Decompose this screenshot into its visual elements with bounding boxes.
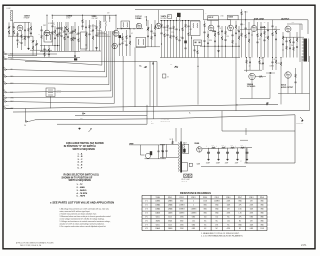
- svg-text:150: 150: [204, 217, 207, 219]
- resistor R36 string x259.5: [259, 58, 261, 61]
- resistor R20 string x197.5: [197, 46, 199, 51]
- svg-text:.01: .01: [273, 59, 275, 61]
- wire coil core a: [100, 21, 102, 29]
- svg-text:PIN 4: PIN 4: [203, 197, 207, 199]
- wire x25 vertical: [24, 109, 26, 122]
- svg-text:SWITCH SEQUENCE: SWITCH SEQUENCE: [73, 149, 96, 151]
- wire V6 top: [210, 20, 212, 25]
- capacitor C18 string x194.5: [194, 46, 196, 51]
- wire antenna bottom row: [8, 56, 80, 58]
- svg-text:0: 0: [193, 201, 194, 203]
- tube V7 detector: [228, 25, 234, 31]
- svg-text:50C5: 50C5: [244, 12, 248, 14]
- svg-text:.05: .05: [264, 22, 266, 24]
- svg-text:+: +: [235, 145, 236, 147]
- svg-text:150: 150: [192, 220, 195, 222]
- svg-text:1.2K: 1.2K: [241, 144, 244, 146]
- resistor R25 string x236: [235, 21, 237, 25]
- wire stage2 row 51.3: [40, 50, 80, 52]
- wire riser x222: [221, 111, 223, 132]
- wire x52 drop: [52, 15, 53, 16]
- capacitor CX7 string x73: [72, 26, 74, 31]
- svg-text:12BE6: 12BE6: [155, 201, 160, 203]
- capacitor CX2 string x41.5: [41, 26, 43, 30]
- capacitor C11 string x119.7: [119, 34, 121, 36]
- svg-text:47K: 47K: [30, 40, 32, 42]
- svg-text:+: +: [225, 145, 226, 147]
- svg-text:V 2: V 2: [145, 205, 148, 207]
- resistor R43 filter: [222, 147, 226, 149]
- capacitor C2 string x25: [24, 22, 26, 30]
- wire riser x150: [149, 62, 151, 107]
- svg-text:5. - TAPE: 5. - TAPE: [77, 195, 86, 198]
- resistor R42 filter: [212, 147, 216, 149]
- wire AC top: [160, 143, 178, 145]
- svg-text:TUBE: TUBE: [156, 197, 160, 199]
- capacitor C38 string x166.5: [166, 144, 168, 150]
- resistor R21 string x204.5: [204, 21, 206, 24]
- tube V1 RF amplifier: [17, 25, 23, 31]
- svg-text:2. - MAN.: 2. - MAN.: [77, 186, 86, 189]
- svg-text:1.5MEG: 1.5MEG: [179, 205, 185, 207]
- resistor R41 h: [175, 66, 178, 68]
- wire ant row y36: [8, 35, 33, 37]
- wire x236 long drop: [235, 58, 237, 111]
- capacitor C14 string x164.5: [164, 21, 166, 27]
- resistor R10 string x96.5: [96, 20, 98, 26]
- wire x246 stub: [245, 128, 247, 135]
- capacitor C8 string x78.5: [78, 26, 80, 33]
- resistor R29 string x264.5: [264, 26, 266, 31]
- pilot light lamp 2: [188, 174, 192, 178]
- vertical x270 drop: [269, 75, 271, 99]
- resistor R28 string x257.5: [257, 22, 259, 34]
- capacitor C34: [267, 102, 269, 104]
- capacitor CX3 string x44.5: [44, 45, 46, 49]
- resistor R38 string x281: [280, 58, 282, 63]
- svg-text:PIN 8: PIN 8: [249, 197, 253, 199]
- wire bus E: [57, 123, 147, 125]
- svg-text:NO.44 (2): NO.44 (2): [182, 181, 188, 183]
- svg-text:220: 220: [278, 63, 280, 65]
- svg-text:3.3MEG: 3.3MEG: [179, 209, 185, 211]
- dark resistor R6b: [74, 58, 77, 60]
- capacitor C7 string x71.5: [71, 26, 73, 32]
- capacitor C26 string x272.5: [272, 20, 274, 26]
- rectifier socket box: [183, 144, 189, 153]
- svg-text:GRN: GRN: [10, 59, 13, 61]
- electrolytic C42: [237, 148, 239, 152]
- wire row x80-101 y51: [80, 50, 101, 52]
- wire conv top: [46, 15, 48, 30]
- svg-text:470K: 470K: [221, 16, 224, 18]
- svg-text:50C5: 50C5: [156, 217, 160, 219]
- tube V4 1st IF amp: [136, 23, 142, 29]
- capacitor C6 string x64.5: [64, 26, 66, 31]
- terminal PH: [25, 121, 27, 123]
- resistor R2 string x21.5: [21, 31, 23, 35]
- svg-text:1. - A: 1. - A: [78, 152, 83, 155]
- svg-text:PHONO: PHONO: [4, 105, 9, 107]
- capacitor CX5 string x59.5: [59, 22, 61, 28]
- svg-text:.02: .02: [249, 66, 251, 68]
- wire P8 join: [8, 107, 13, 109]
- power transformer T6 core: [180, 142, 182, 173]
- wire y140 stub: [240, 139, 248, 141]
- wire segment y131: [222, 130, 295, 132]
- svg-text:150MF: 150MF: [206, 163, 210, 165]
- ground sym lower left: [79, 127, 81, 130]
- svg-text:3. - C: 3. - C: [78, 159, 83, 161]
- wire AC bottom: [160, 156, 178, 158]
- svg-text:10MEG: 10MEG: [179, 213, 185, 215]
- wire x288 drop: [287, 78, 289, 94]
- svg-text:470K OHM: 470K OHM: [254, 18, 264, 21]
- svg-text:2. 0.15 OHM MEASURED ACROSS FI: 2. 0.15 OHM MEASURED ACROSS FILAMENTS.: [201, 235, 243, 238]
- wire x110 string x109.8: [109, 15, 111, 18]
- table grid: [141, 195, 143, 230]
- svg-text:PIN 7: PIN 7: [238, 197, 242, 199]
- wire y37 link: [283, 36, 304, 38]
- svg-text:1.2K: 1.2K: [231, 144, 234, 146]
- pilot lamp jewel: [189, 163, 192, 166]
- terminal GND: [82, 113, 84, 115]
- tube V3b oscillator: [112, 43, 117, 48]
- electrolytic C39: [208, 148, 210, 152]
- svg-text:4. - D: 4. - D: [78, 161, 83, 164]
- capacitor C5 string x57.5: [57, 22, 59, 28]
- svg-text:INTERLOCK: INTERLOCK: [296, 123, 303, 125]
- resistor R27 string x241.5: [241, 9, 243, 12]
- capacitor C28 string x293.5: [293, 37, 295, 42]
- wire phono bend: [140, 145, 144, 155]
- wire x300 drop: [299, 24, 301, 62]
- capacitor C30 on bus A: [266, 103, 268, 105]
- interlock plug: [300, 117, 303, 122]
- wire B plus top bus: [204, 20, 309, 34]
- electrolytic C43: [246, 148, 248, 152]
- svg-text:RECT: RECT: [183, 143, 187, 145]
- resistor R1 string x17.5: [17, 31, 19, 33]
- junction dots audio row: [246, 57, 247, 58]
- svg-text:150: 150: [291, 45, 293, 47]
- svg-text:470K: 470K: [261, 64, 264, 66]
- resistor R8 string x82.5: [82, 15, 84, 19]
- svg-text:470K: 470K: [209, 40, 212, 42]
- svg-text:RESISTANCE READINGS: RESISTANCE READINGS: [180, 191, 211, 195]
- tube V3 mixer: [113, 30, 119, 36]
- svg-text:50C5: 50C5: [156, 224, 160, 226]
- svg-text:OSC SEC: OSC SEC: [92, 18, 98, 20]
- wire x252 drop: [251, 80, 253, 99]
- resistor R33 string x290: [289, 32, 291, 40]
- wire mixer top: [115, 15, 117, 30]
- 3rd IF can box T4: [191, 21, 200, 36]
- vertical x281 drop: [280, 70, 282, 104]
- coil box shield: [81, 32, 88, 49]
- svg-text:S1 FRONT: S1 FRONT: [48, 23, 55, 25]
- svg-text:GND: GND: [80, 118, 83, 120]
- svg-text:● SEE PARTS LIST FOR VALUE AND: ● SEE PARTS LIST FOR VALUE AND APPLICATI…: [50, 200, 114, 204]
- transformer primary winding: [178, 143, 181, 172]
- resistor R9 string x89.5: [89, 20, 91, 25]
- svg-text:150: 150: [227, 220, 230, 222]
- wire phono top: [133, 144, 165, 146]
- capacitor C15 string x170.5: [170, 21, 172, 28]
- resistor R14 string x155: [154, 20, 156, 26]
- capacitor C37 string x162.4: [161, 144, 163, 150]
- wire ant row y22: [14, 21, 30, 23]
- wire P7 to switch riser: [8, 58, 113, 98]
- svg-text:100MF: 100MF: [216, 163, 220, 165]
- svg-text:6.3V: 6.3V: [197, 164, 200, 166]
- capacitor C33 h: [269, 72, 271, 74]
- wire transformer secondary out: [181, 163, 188, 172]
- coil L4b: [105, 21, 108, 27]
- wire right power drop x295: [246, 115, 295, 163]
- svg-text:1.5MEG: 1.5MEG: [214, 201, 220, 203]
- resistor R4 string x55: [54, 26, 56, 30]
- phono plug symbol: [130, 143, 133, 145]
- svg-text:OUT: OUT: [292, 22, 295, 24]
- svg-text:V 8: V 8: [145, 228, 148, 230]
- svg-text:5. - E: 5. - E: [78, 165, 83, 167]
- svg-text:PIN 2: PIN 2: [180, 197, 184, 199]
- relay box K1: [46, 88, 55, 97]
- AVC wire: [136, 46, 160, 48]
- wire y24 link: [287, 24, 302, 30]
- resistor RX4 string x49: [48, 45, 50, 49]
- wire ground bus B: [13, 111, 310, 112]
- wire x146 string x146.5: [146, 16, 148, 20]
- resistor R40 string x295.5: [295, 68, 297, 74]
- wire P6 to switch riser: [8, 58, 111, 93]
- svg-text:40MF: 40MF: [235, 163, 239, 165]
- electrolytic C40: [218, 148, 220, 152]
- svg-text:33K: 33K: [226, 36, 228, 38]
- svg-text:.01: .01: [273, 29, 275, 31]
- svg-text:PIN 5: PIN 5: [215, 197, 219, 199]
- svg-text:4. - 78 RPM: 4. - 78 RPM: [77, 192, 88, 195]
- wire x302 drop: [301, 56, 303, 94]
- wire riser x135 low: [134, 48, 136, 107]
- capacitor C27 string x286.5: [286, 37, 288, 41]
- wire ph stub: [28, 120, 35, 122]
- junction dots 2nd det row: [204, 46, 205, 47]
- capacitor C16 string x176.5: [176, 17, 178, 29]
- audio row y70: [244, 69, 262, 71]
- capacitor C13 string x151.5: [151, 24, 153, 31]
- svg-text:PIN 9: PIN 9: [260, 197, 264, 199]
- resistor RX1 string x31: [30, 22, 32, 26]
- wire audio row y98.5: [240, 98, 270, 100]
- switch riser tops: [101, 31, 103, 58]
- wire relay lead: [50, 97, 52, 109]
- capacitor C17 string x188.5: [188, 21, 190, 26]
- wire bus riser x147: [146, 105, 148, 124]
- wire bus C: [75, 115, 147, 117]
- svg-text:2ND IF: 2ND IF: [208, 17, 213, 19]
- resistor R32 string x283: [282, 32, 284, 36]
- switch S3 box: [163, 74, 166, 78]
- capacitor C35 string x158.5: [158, 145, 160, 151]
- capacitor C1A string x9: [8, 22, 10, 27]
- wire P2 to switch riser: [8, 58, 102, 66]
- svg-text:V 5: V 5: [145, 217, 148, 219]
- svg-text:12BE6: 12BE6: [66, 15, 73, 17]
- wire x245 string x245.6: [245, 11, 247, 20]
- oscillator coil L4: [99, 21, 102, 29]
- resistor R17 string x173.5: [173, 21, 175, 26]
- resistor R37 string x276: [275, 58, 277, 61]
- svg-text:V 1: V 1: [145, 201, 148, 203]
- svg-text:V 4: V 4: [145, 213, 148, 215]
- wire x198 long drop: [197, 66, 198, 67]
- svg-text:12AT6: 12AT6: [161, 15, 167, 18]
- wire transformer top leads: [175, 128, 177, 142]
- svg-text:S2: S2: [170, 139, 172, 141]
- svg-text:EQUALIZER SWITCH (S2) SHOWN: EQUALIZER SWITCH (S2) SHOWN: [66, 142, 104, 145]
- svg-text:S3: S3: [167, 77, 169, 79]
- phono jack J1: [145, 153, 150, 158]
- svg-text:LOOP: LOOP: [7, 8, 11, 10]
- svg-text:1MEG: 1MEG: [152, 33, 156, 35]
- svg-text:1. MEASURED TO PIN 4 OF 35W4 S: 1. MEASURED TO PIN 4 OF 35W4 SOCKET.: [201, 232, 240, 235]
- wire top bus segment: [135, 10, 204, 20]
- wire P5 to switch riser: [8, 58, 109, 85]
- tube V2 converter: [44, 30, 50, 36]
- label 2ND IF box: [208, 16, 219, 21]
- wire row y29.6: [240, 29, 251, 31]
- svg-text:1MEG: 1MEG: [69, 33, 73, 35]
- svg-text:3. - RADIO: 3. - RADIO: [77, 189, 87, 192]
- wire x310 inner: [309, 56, 311, 111]
- wire filament line: [201, 166, 246, 168]
- resistor R24 string x225.5: [225, 26, 227, 31]
- label DET box: [228, 15, 239, 20]
- svg-text:PIN 1: PIN 1: [168, 197, 172, 199]
- tube V6 2nd IF amp: [208, 25, 214, 31]
- svg-text:PIN 3: PIN 3: [191, 197, 195, 199]
- wire AVC top bus: [52, 14, 116, 16]
- capacitor C36 string x163: [162, 145, 164, 151]
- svg-text:12AV6: 12AV6: [247, 83, 254, 86]
- svg-text:CONV: CONV: [66, 17, 70, 19]
- capacitor C23 string x249: [248, 22, 250, 33]
- oscillator coil box T1: [44, 33, 52, 43]
- svg-text:1. - TV: 1. - TV: [77, 184, 84, 186]
- coil L6: [179, 17, 182, 22]
- svg-text:47K: 47K: [123, 41, 125, 43]
- wire antenna lead: [12, 11, 14, 58]
- svg-text:.01: .01: [62, 32, 64, 34]
- switch wiring rows: [96, 30, 102, 32]
- resistor R35 string x246.5: [246, 58, 248, 61]
- svg-text:SHOWN IN TV POSITION OF: SHOWN IN TV POSITION OF: [62, 177, 93, 179]
- wire row y61.5: [25, 62, 157, 107]
- resistor R26 h: [213, 30, 216, 32]
- svg-text:PIN 6: PIN 6: [226, 197, 230, 199]
- capacitor C32 string x272.5: [272, 58, 274, 63]
- svg-text:1.5MEG: 1.5MEG: [191, 209, 197, 211]
- junction dot x82: [82, 15, 83, 16]
- cap pair box: [194, 40, 202, 46]
- svg-text:.05: .05: [18, 42, 20, 44]
- svg-text:OUTPUT: OUTPUT: [281, 18, 290, 20]
- wire stage2 row 45.6: [40, 45, 60, 47]
- wire HV line: [202, 148, 252, 149]
- svg-text:B+: B+: [189, 113, 191, 115]
- 2nd IF can box T3: [136, 37, 146, 47]
- resistor R39 h: [259, 76, 262, 78]
- transformer secondary winding: [183, 144, 186, 154]
- capacitor C24 string x261: [260, 22, 262, 27]
- svg-text:1.5MEG: 1.5MEG: [191, 213, 197, 215]
- wire stage row y46.2: [200, 45, 240, 47]
- capacitor C9 string x86: [85, 20, 87, 27]
- resistor R3 string x28.5: [28, 22, 30, 28]
- svg-text:50C5: 50C5: [168, 217, 172, 219]
- svg-text:1.2K: 1.2K: [222, 144, 225, 146]
- electrolytic C41: [227, 148, 229, 152]
- capacitor C30b string x250: [249, 58, 251, 63]
- svg-text:2.2M: 2.2M: [165, 30, 168, 32]
- arrow sym lower left: [89, 129, 92, 133]
- resistor RX6 string x66: [65, 22, 67, 27]
- tube V8 audio driver: [251, 26, 257, 32]
- capacitor C21 string x232.5: [232, 31, 234, 35]
- svg-text:OSC: OSC: [44, 49, 47, 51]
- svg-text:+: +: [216, 145, 217, 147]
- svg-text:35W4: 35W4: [168, 220, 172, 222]
- capacitor CX1 string x13.8: [13, 22, 15, 27]
- svg-text:50C5: 50C5: [281, 84, 287, 86]
- wire osc row: [30, 49, 52, 51]
- svg-text:PH: PH: [24, 125, 26, 127]
- tube V11 audio output: [285, 72, 291, 78]
- capacitor C onrow: [152, 63, 154, 65]
- tube V9 output: [285, 26, 291, 32]
- resistor R44 filter: [231, 147, 235, 149]
- svg-text:.02: .02: [131, 33, 133, 35]
- svg-text:+: +: [206, 145, 207, 147]
- svg-text:12SK7: 12SK7: [24, 16, 31, 18]
- pilot light lamp 1: [184, 174, 188, 178]
- svg-text:B+: B+: [140, 65, 142, 67]
- wire V7 top: [230, 20, 232, 26]
- capacitor C22 string x239: [238, 26, 240, 31]
- IF can marker: [177, 13, 181, 17]
- svg-text:SWITCH SEQUENCE: SWITCH SEQUENCE: [69, 180, 92, 182]
- wire long riser x123 low: [122, 56, 124, 111]
- svg-text:150: 150: [216, 217, 219, 219]
- wire bus drop x104: [103, 15, 105, 22]
- wire x191 string x191.5: [191, 36, 193, 39]
- output transformer T5 core: [304, 39, 307, 62]
- volume control R13 string x148: [147, 20, 149, 27]
- svg-text:6. - F: 6. - F: [78, 167, 83, 169]
- wire riser x153: [153, 62, 155, 119]
- resistor R45 filter: [241, 147, 245, 149]
- resistor R22 string x208: [207, 31, 209, 34]
- svg-text:RADIO SELECTOR SWITCH (S1): RADIO SELECTOR SWITCH (S1): [64, 173, 99, 176]
- small box part y15: [168, 15, 172, 19]
- svg-text:R41: R41: [170, 64, 173, 66]
- resistor R6 string x68: [67, 22, 69, 29]
- resistor R30 string x276: [275, 26, 277, 31]
- wire det row y20.6: [160, 20, 200, 22]
- resistor R15 string x161.5: [161, 21, 163, 24]
